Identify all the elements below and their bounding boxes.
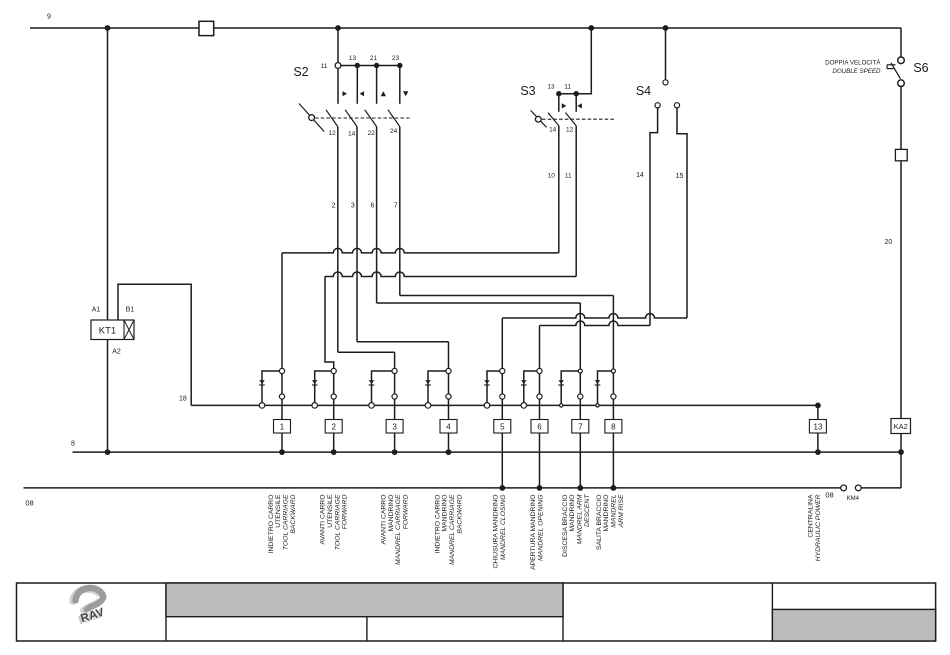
svg-text:15: 15	[676, 173, 684, 180]
svg-text:14: 14	[549, 127, 557, 134]
svg-text:08: 08	[25, 499, 33, 508]
svg-text:MANDREL CARRIAGE: MANDREL CARRIAGE	[395, 494, 402, 565]
svg-text:TOOL CARRIAGE: TOOL CARRIAGE	[283, 494, 290, 550]
svg-text:3: 3	[392, 423, 397, 432]
svg-text:DOPPIA VELOCITÀ: DOPPIA VELOCITÀ	[825, 59, 881, 66]
svg-text:FORWARD: FORWARD	[403, 494, 410, 529]
svg-text:S3: S3	[520, 84, 535, 98]
svg-text:MANDRINO: MANDRINO	[442, 495, 449, 532]
svg-text:S6: S6	[913, 61, 928, 75]
svg-text:22: 22	[368, 130, 376, 137]
svg-text:11: 11	[564, 83, 571, 90]
svg-text:S2: S2	[293, 65, 308, 79]
svg-text:6: 6	[537, 423, 542, 432]
svg-text:DISCESA BRACCIO: DISCESA BRACCIO	[562, 495, 569, 557]
svg-text:21: 21	[370, 55, 378, 62]
svg-text:14: 14	[636, 172, 644, 179]
svg-text:INDIETRO CARRO: INDIETRO CARRO	[434, 495, 441, 554]
svg-text:SALITA BRACCIO: SALITA BRACCIO	[596, 495, 603, 550]
svg-text:KA2: KA2	[894, 422, 908, 431]
svg-text:KM4: KM4	[847, 496, 860, 502]
svg-text:MANDRINO: MANDRINO	[569, 495, 576, 532]
svg-text:2: 2	[332, 203, 336, 210]
svg-text:9: 9	[47, 14, 51, 21]
svg-text:8: 8	[611, 423, 616, 432]
svg-text:A2: A2	[112, 349, 121, 356]
svg-text:08: 08	[825, 491, 833, 500]
svg-text:18: 18	[179, 395, 187, 402]
svg-text:HYDRAULIC POWER: HYDRAULIC POWER	[815, 494, 822, 561]
svg-text:MANDREL: MANDREL	[611, 494, 618, 527]
svg-text:14: 14	[348, 131, 356, 138]
svg-text:6: 6	[370, 203, 374, 210]
svg-text:TOOL CARRIAGE: TOOL CARRIAGE	[334, 494, 341, 550]
svg-text:KT1: KT1	[99, 325, 116, 336]
svg-text:B1: B1	[126, 307, 135, 314]
svg-text:20: 20	[885, 239, 893, 246]
svg-text:13: 13	[547, 83, 555, 90]
svg-text:AVANTI CARRO: AVANTI CARRO	[320, 495, 327, 545]
svg-text:INDIETRO CARRO: INDIETRO CARRO	[268, 495, 275, 554]
svg-text:MANDREL CARRIAGE: MANDREL CARRIAGE	[449, 494, 456, 565]
svg-text:UTENSILE: UTENSILE	[327, 494, 334, 528]
svg-text:2: 2	[331, 423, 336, 432]
svg-text:AVANTI CARRO: AVANTI CARRO	[380, 495, 387, 545]
svg-text:A1: A1	[92, 307, 101, 314]
svg-text:CENTRALINA: CENTRALINA	[808, 494, 815, 538]
svg-text:13: 13	[813, 423, 822, 432]
svg-text:MANDRINO: MANDRINO	[603, 495, 610, 532]
svg-text:12: 12	[566, 127, 574, 134]
svg-text:FORWARD: FORWARD	[342, 494, 349, 529]
svg-text:CHIUSURA MANDRINO: CHIUSURA MANDRINO	[493, 495, 500, 569]
svg-text:10: 10	[548, 173, 556, 180]
svg-text:4: 4	[446, 423, 451, 432]
svg-text:5: 5	[500, 423, 505, 432]
svg-text:BACKWARD: BACKWARD	[290, 494, 297, 533]
svg-text:13: 13	[349, 55, 357, 62]
svg-text:MANDREL ARM: MANDREL ARM	[577, 494, 584, 544]
svg-text:11: 11	[321, 63, 328, 70]
svg-text:UTENSILE: UTENSILE	[275, 494, 282, 528]
svg-text:MANDREL OPENING: MANDREL OPENING	[537, 495, 544, 561]
svg-text:7: 7	[394, 203, 398, 210]
svg-text:MANDREL CLOSING: MANDREL CLOSING	[500, 494, 507, 560]
svg-text:DOUBLE SPEED: DOUBLE SPEED	[832, 68, 881, 75]
svg-text:DESCENT: DESCENT	[584, 494, 591, 527]
svg-text:S4: S4	[636, 84, 651, 98]
svg-text:ARM RISE: ARM RISE	[618, 494, 625, 528]
svg-text:24: 24	[390, 128, 398, 135]
svg-text:7: 7	[578, 423, 583, 432]
svg-text:3: 3	[351, 203, 355, 210]
svg-text:MANDRINO: MANDRINO	[388, 495, 395, 532]
svg-text:8: 8	[71, 440, 75, 447]
svg-text:BACKWARD: BACKWARD	[457, 494, 464, 533]
svg-text:11: 11	[565, 173, 572, 180]
svg-text:1: 1	[280, 423, 285, 432]
svg-text:APERTURA MANDRINO: APERTURA MANDRINO	[530, 495, 537, 570]
svg-text:23: 23	[392, 55, 400, 62]
svg-text:12: 12	[328, 130, 336, 137]
